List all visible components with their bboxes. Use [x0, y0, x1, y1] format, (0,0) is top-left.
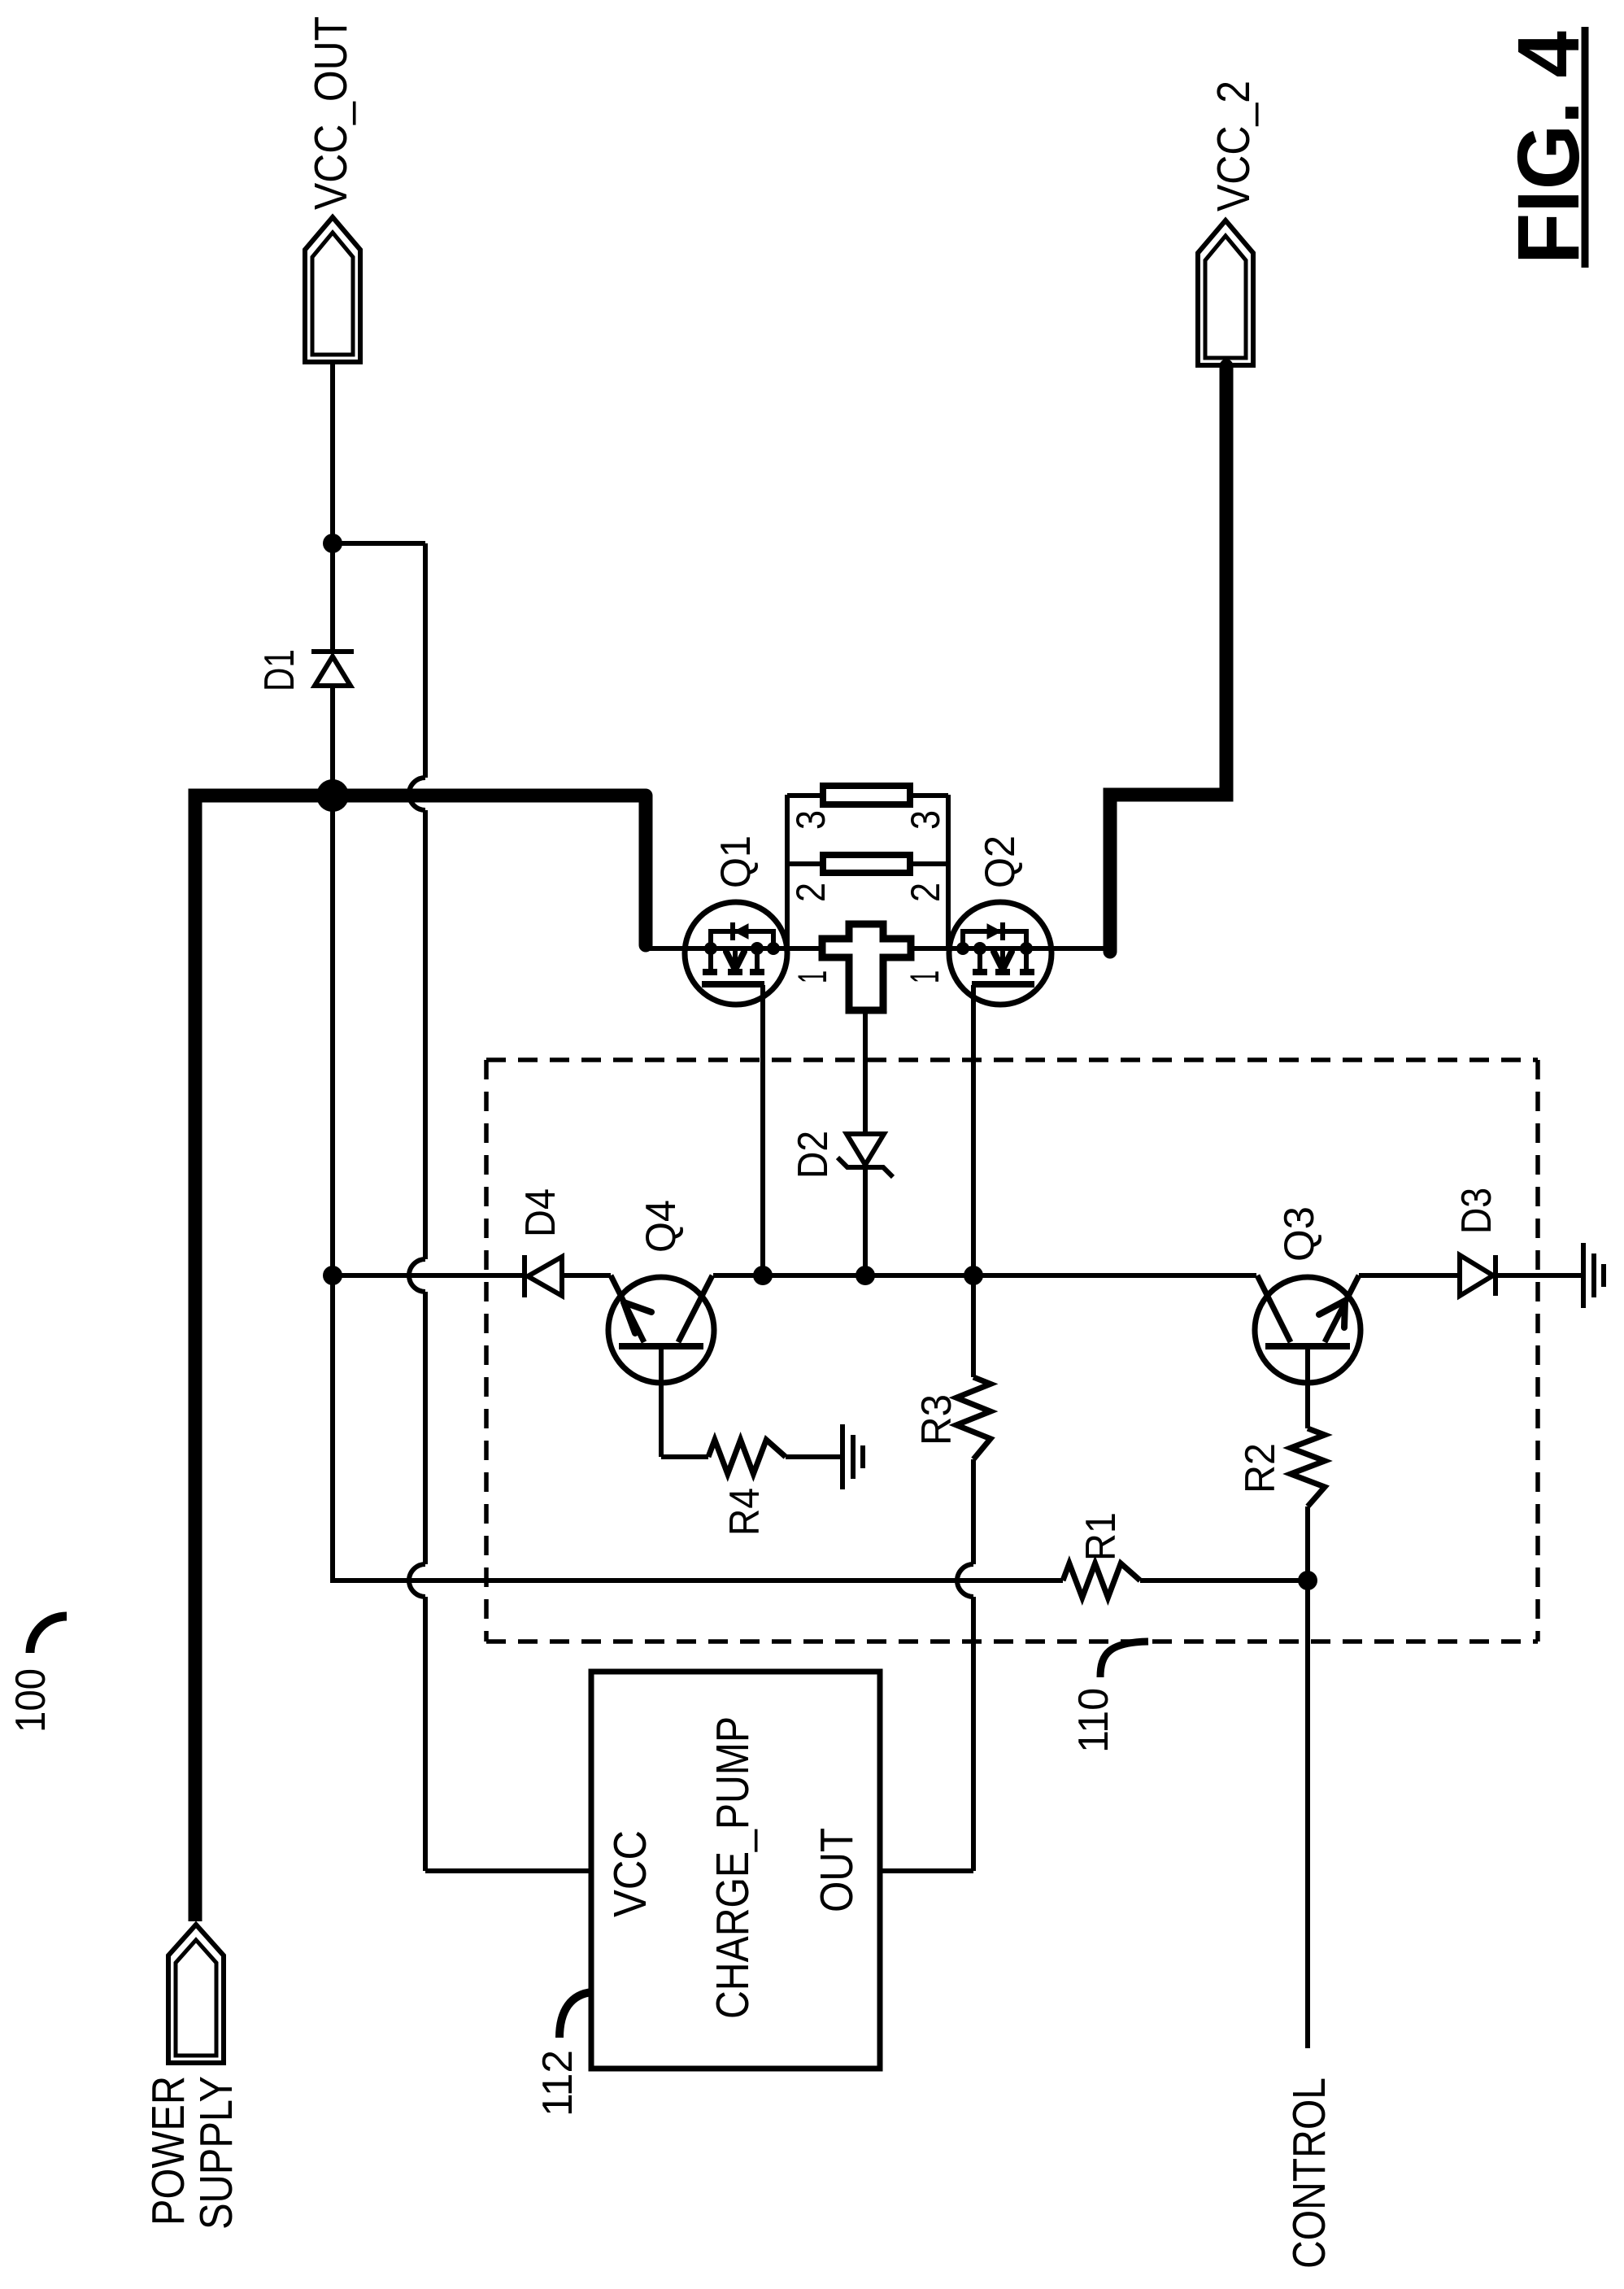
- svg-text:CONTROL: CONTROL: [1283, 2078, 1335, 2269]
- package tab pin (T shape) between Q1 and Q2: [822, 924, 911, 1010]
- pin number 2 (Q1): [788, 883, 834, 902]
- wire: gate node row y=1568 (D4..Q4..Q1 gate..D2..R3..Q3): [333, 1273, 1582, 1278]
- connector: VCC_OUT (pentagon): [305, 217, 360, 362]
- svg-text:2: 2: [788, 883, 834, 902]
- svg-text:SUPPLY: SUPPLY: [190, 2076, 242, 2230]
- junction dot control row / R2: [1298, 1571, 1317, 1590]
- svg-text:1: 1: [790, 970, 835, 983]
- wire: D2 anode from package tab, and D2 cathode to node row: [863, 1010, 868, 1275]
- label VCC_OUT: [305, 16, 357, 210]
- label Q1: [712, 835, 760, 888]
- wire: branch from VCC_OUT node to vertical feeder x=523 with hops, to charge-pump VCC pin: [333, 543, 591, 1871]
- label Q3: [1276, 1206, 1323, 1262]
- pin number 1 (Q1): [790, 970, 835, 983]
- label R2: [1237, 1443, 1284, 1493]
- svg-text:Q1: Q1: [712, 835, 760, 888]
- svg-text:R4: R4: [721, 1488, 768, 1536]
- label POWER SUPPLY: [142, 2076, 242, 2230]
- junction dot node row / D2: [856, 1266, 875, 1285]
- title FIG. 4: [1499, 27, 1597, 268]
- svg-text:3: 3: [788, 810, 834, 830]
- zener diode D2: [838, 1134, 893, 1177]
- label D2: [790, 1131, 837, 1179]
- svg-text:VCC: VCC: [604, 1830, 656, 1917]
- svg-text:Q3: Q3: [1276, 1206, 1323, 1262]
- junction dot node row / D1 line: [323, 1266, 342, 1285]
- svg-text:D4: D4: [517, 1188, 564, 1237]
- wire: thick VCC_2 path from Q2 drain up and right to VCC_2 connector: [1110, 366, 1226, 952]
- connector: VCC_2 (pentagon): [1198, 220, 1253, 365]
- diode D4: [525, 1255, 562, 1297]
- wire: thick power-supply bus from POWER SUPPLY up and across to drop-down: [195, 796, 646, 1921]
- wire: pin3-3 rail: [787, 793, 948, 798]
- dashed boundary box (110): [486, 1060, 1538, 1642]
- resistor R3: [956, 1377, 991, 1459]
- reference numeral 100: [7, 1668, 54, 1733]
- resistor link between pins 3-3 (rectangle): [823, 786, 910, 804]
- svg-text:2: 2: [903, 883, 948, 902]
- label Q4: [638, 1200, 685, 1253]
- svg-text:Q2: Q2: [977, 835, 1024, 888]
- wire: package left vertical (pin3/2 column to rail): [785, 795, 790, 948]
- ground (after R4): [842, 1424, 863, 1489]
- resistor R4: [708, 1440, 786, 1474]
- svg-text:CHARGE_PUMP: CHARGE_PUMP: [707, 1716, 759, 2019]
- svg-text:1: 1: [902, 970, 947, 983]
- wire: Q3 base to R2: [1305, 1346, 1310, 1428]
- wire: R2 to junction and CONTROL line down: [1305, 1506, 1310, 2048]
- svg-text:112: 112: [534, 2050, 581, 2117]
- block name CHARGE_PUMP: [707, 1716, 759, 2019]
- label VCC_2: [1208, 81, 1260, 211]
- ground (after D3): [1583, 1243, 1604, 1308]
- wire: source-drain rail through Q1, tab, Q2: [649, 946, 1110, 951]
- transistor Q3: [1255, 1275, 1361, 1383]
- svg-text:OUT: OUT: [811, 1828, 863, 1912]
- junction dot (large) on power bus: [316, 779, 349, 812]
- resistor R1: [1063, 1563, 1140, 1598]
- svg-text:110: 110: [1070, 1688, 1117, 1753]
- label R4: [721, 1488, 768, 1536]
- leader arc for label 100: [30, 1616, 67, 1653]
- wire: pin2-2 rail: [787, 861, 948, 866]
- svg-text:100: 100: [7, 1668, 54, 1733]
- wire: horizontal control row y=1943 from left corner to R1: [330, 1578, 1063, 1583]
- MOSFET Q1: [685, 902, 787, 1005]
- svg-text:VCC_2: VCC_2: [1208, 81, 1260, 211]
- leader arc for label 112: [559, 1992, 593, 2038]
- label D4: [517, 1188, 564, 1237]
- wire: Q2 gate down through R3, hop over control row, to charge-pump OUT pin: [880, 985, 973, 1871]
- svg-text:POWER: POWER: [142, 2076, 194, 2226]
- wire: R1 right side to R2/CONTROL junction: [1140, 1578, 1308, 1583]
- wire: Q4 base to R4: [661, 1346, 708, 1457]
- pin number 1 (Q2): [902, 970, 947, 983]
- svg-text:D1: D1: [256, 649, 303, 691]
- pin number 2 (Q2): [903, 883, 948, 902]
- svg-text:R3: R3: [913, 1394, 960, 1445]
- label D3: [1453, 1188, 1500, 1234]
- leader arc for label 110: [1100, 1642, 1148, 1677]
- resistor R2: [1291, 1428, 1325, 1506]
- junction dot at VCC_OUT branch: [323, 534, 342, 553]
- label R1: [1078, 1512, 1125, 1561]
- wire: VCC_OUT lead down to node (through D1): [330, 361, 335, 1580]
- label Q2: [977, 835, 1024, 888]
- svg-text:D3: D3: [1453, 1188, 1500, 1234]
- svg-text:R1: R1: [1078, 1512, 1125, 1561]
- resistor link between pins 2-2 (rectangle): [823, 855, 910, 873]
- reference numeral 112: [534, 2050, 581, 2117]
- connector: POWER SUPPLY (pentagon): [168, 1925, 224, 2063]
- svg-text:R2: R2: [1237, 1443, 1284, 1493]
- transistor Q4: [608, 1275, 714, 1383]
- pin name VCC: [604, 1830, 656, 1917]
- wire: package right vertical (pin3/2 column to rail): [946, 795, 951, 948]
- pin number 3 (Q1): [788, 810, 834, 830]
- label CONTROL: [1283, 2078, 1335, 2269]
- pin number 3 (Q2): [903, 810, 948, 830]
- svg-text:3: 3: [903, 810, 948, 830]
- diode D1: [311, 652, 354, 686]
- charge pump block (112): [591, 1672, 880, 2069]
- wire: Q1 gate down to node row: [760, 985, 765, 1275]
- wire: R4 to ground: [786, 1454, 841, 1459]
- diode D3: [1460, 1255, 1496, 1296]
- MOSFET Q2: [949, 902, 1051, 1005]
- reference numeral 110: [1070, 1688, 1117, 1753]
- pin name OUT: [811, 1828, 863, 1912]
- svg-text:VCC_OUT: VCC_OUT: [305, 16, 357, 210]
- label D1: [256, 649, 303, 691]
- junction dot node row / R3: [964, 1266, 983, 1285]
- svg-text:D2: D2: [790, 1131, 837, 1179]
- label R3: [913, 1394, 960, 1445]
- junction dot node row / Q1 gate: [753, 1266, 773, 1285]
- svg-text:Q4: Q4: [638, 1200, 685, 1253]
- wire: thick bus drop-down to Q1 source rail: [639, 796, 653, 945]
